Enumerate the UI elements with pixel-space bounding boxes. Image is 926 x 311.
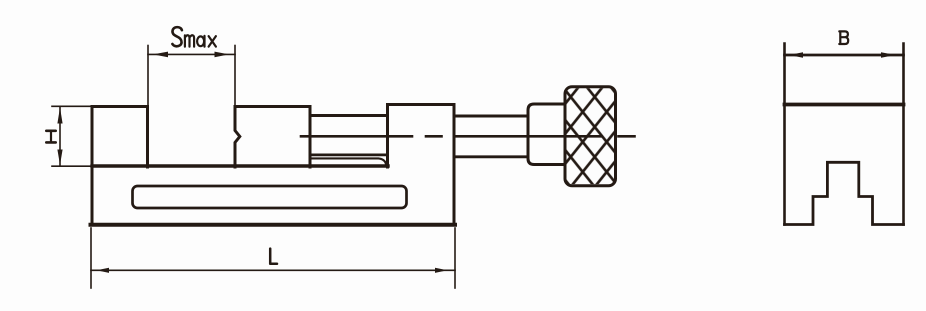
dimension B right arrowhead [881, 52, 895, 58]
end view top edge and B dimension line [785, 54, 904, 57]
dimension Smax left arrowhead [153, 52, 168, 58]
movable jaw top and right edge [235, 107, 310, 168]
vise base top surface line [92, 164, 388, 167]
lead screw lower line, jaw to bracket [311, 153, 388, 156]
base mounting slot [133, 186, 407, 208]
rear bracket [388, 105, 455, 168]
dimension L left arrowhead [97, 268, 110, 273]
knurled knob outline [565, 87, 616, 186]
end view jaw plate line [785, 103, 904, 107]
dimension H bottom arrowhead [57, 150, 62, 166]
dimension Smax right arrowhead [215, 52, 230, 58]
slide plate line with rounded end [311, 158, 386, 166]
lead screw upper line, jaw to bracket [311, 114, 388, 117]
screw axis centerline [301, 135, 635, 138]
end view right edge [902, 44, 905, 225]
knob knurling [567, 88, 615, 184]
end view bottom edge with guide notch [785, 162, 904, 224]
vise base right edge [453, 105, 456, 225]
dimension H top arrowhead [57, 108, 62, 124]
dimension L lines [91, 228, 455, 288]
screw collar [528, 104, 565, 165]
lead screw upper line, bracket to collar [454, 115, 528, 118]
lead screw lower line, bracket to collar [454, 155, 528, 158]
dimension Smax lines [148, 46, 235, 107]
fixed jaw [92, 107, 148, 168]
vise base left edge [91, 107, 94, 225]
dimension L right arrowhead [435, 268, 448, 273]
end view left edge [783, 44, 786, 225]
dimension H lines [52, 106, 92, 166]
vise base bottom edge [91, 223, 456, 227]
label L [270, 249, 277, 264]
label H rotated [46, 131, 55, 143]
label Smax [172, 27, 216, 46]
label B [839, 31, 848, 44]
movable jaw left edge with break mark [235, 107, 240, 168]
dimension B left arrowhead [789, 52, 803, 58]
